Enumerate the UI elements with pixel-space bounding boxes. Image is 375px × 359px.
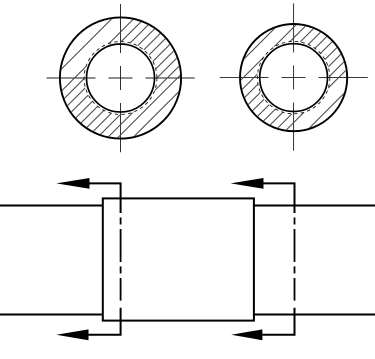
right section dashed thread circle — [257, 41, 329, 113]
cutting plane bottom arrowhead — [56, 329, 88, 340]
cutting plane bottom bend and arrow tail — [89, 308, 121, 335]
right section centerline horizontal — [220, 77, 368, 79]
right section outer circle — [240, 24, 347, 131]
left section hatching — [0, 13, 257, 142]
right section inner bore circle — [260, 44, 328, 112]
cutting plane top bend and arrow tail — [264, 183, 295, 213]
left section centerline horizontal — [47, 77, 195, 79]
shaft bottom outline line — [0, 314, 375, 316]
cutting plane top bend and arrow tail — [90, 183, 121, 213]
right section hatching — [168, 20, 375, 135]
right section centerline vertical — [293, 3, 295, 150]
cutting plane top arrowhead — [231, 178, 264, 189]
cutting plane top arrowhead — [56, 178, 89, 189]
cutting plane bottom bend and arrow tail — [262, 308, 294, 335]
cutting plane bottom arrowhead — [231, 329, 262, 340]
left section centerline vertical — [120, 4, 122, 152]
left section inner bore circle — [87, 44, 155, 112]
cutting plane dash-dot segments — [120, 218, 122, 301]
left section outer circle — [60, 17, 181, 138]
cutting plane dash-dot segments — [294, 218, 296, 301]
sleeve rectangle — [103, 198, 254, 320]
left section dashed thread circle — [84, 42, 157, 115]
shaft top outline line — [0, 205, 375, 207]
